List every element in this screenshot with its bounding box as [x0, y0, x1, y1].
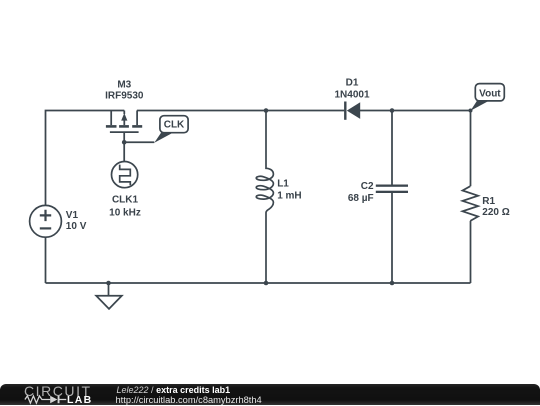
junction gate node [122, 140, 127, 145]
wire right branch lower (R1 to bottom rail) [470, 221, 472, 283]
svg-text:CLK: CLK [164, 120, 185, 131]
footer bar [0, 384, 540, 405]
wire C2 branch lower [391, 193, 393, 283]
CircuitLab logo LAB [67, 394, 92, 406]
junction C2 top [390, 108, 395, 113]
wire diode to Vout corner [360, 110, 471, 112]
svg-text:68 µF: 68 µF [348, 193, 374, 204]
svg-text:M3: M3 [117, 80, 131, 91]
resistor R1 [463, 186, 479, 221]
svg-text:Vout: Vout [479, 88, 501, 99]
junction L1 bottom [264, 281, 269, 286]
wire bottom rail [46, 282, 471, 284]
junction C2 bottom [390, 281, 395, 286]
CircuitLab logo CIRCUIT [24, 383, 92, 399]
junction Vout corner [469, 109, 473, 113]
svg-text:10 kHz: 10 kHz [109, 208, 141, 219]
net flag Vout [471, 84, 505, 111]
wire top-left from V1 to MOSFET bulk corner [46, 111, 125, 206]
junction L1 top [264, 108, 269, 113]
capacitor C2 [376, 185, 408, 194]
inductor L1 [256, 111, 273, 284]
svg-text:V1: V1 [66, 210, 79, 221]
svg-text:L1: L1 [277, 179, 289, 190]
svg-text:R1: R1 [482, 196, 495, 207]
svg-text:D1: D1 [346, 78, 359, 89]
clock source CLK1 [112, 162, 138, 188]
footer url line [116, 395, 262, 405]
CircuitLab logo waveform [0, 384, 120, 405]
svg-text:1 mH: 1 mH [277, 190, 301, 201]
wire top rail from MOSFET drain to diode [137, 110, 344, 112]
wire V1 bottom lead [45, 237, 47, 283]
wire gate to node [123, 132, 125, 142]
svg-text:IRF9530: IRF9530 [105, 91, 144, 102]
junction ground node [106, 281, 111, 286]
ground [96, 283, 122, 309]
voltage source V1 [30, 205, 62, 237]
transistor M3 (PMOS IRF9530) [106, 111, 142, 133]
wire gate node to CLK flag [124, 141, 154, 143]
svg-text:220 Ω: 220 Ω [482, 207, 509, 218]
svg-text:1N4001: 1N4001 [334, 89, 369, 100]
net flag CLK [154, 116, 188, 143]
footer title line [117, 385, 231, 395]
svg-text:10 V: 10 V [66, 221, 87, 232]
svg-text:CLK1: CLK1 [112, 195, 139, 206]
wire right branch upper (Vout to R1) [470, 111, 472, 187]
wire C2 branch upper [391, 111, 393, 185]
wire gate node to CLK1 source [123, 142, 125, 161]
diode D1 [344, 102, 360, 120]
svg-text:C2: C2 [361, 181, 374, 192]
